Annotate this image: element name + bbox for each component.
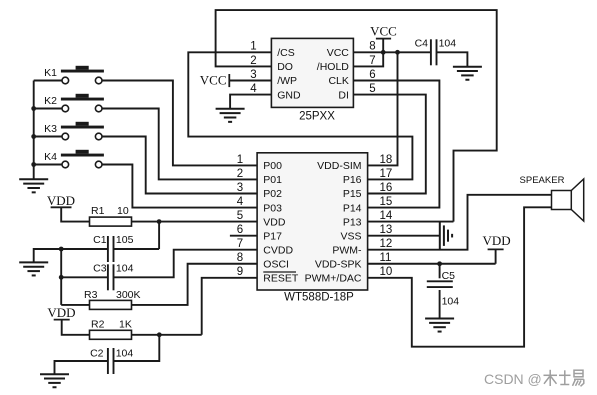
junction dot C1/gnd [59, 247, 64, 252]
svg-text:VSS: VSS [340, 230, 361, 242]
wire U1 pin7 /HOLD riser [353, 52, 383, 66]
svg-text:VDD-SPK: VDD-SPK [315, 258, 362, 270]
svg-text:P14: P14 [343, 202, 362, 214]
wire K2 left lead [34, 108, 62, 110]
svg-text:4: 4 [237, 196, 244, 208]
ground (U1 GND) [216, 109, 245, 122]
wire C1 right lead [114, 248, 159, 250]
svg-text:104: 104 [442, 296, 460, 308]
svg-text:3: 3 [237, 182, 243, 194]
wire net PWM-: U2 pin12 to speaker + [368, 195, 552, 250]
capacitor C3 [93, 262, 133, 290]
svg-text:14: 14 [380, 210, 393, 222]
svg-text:VCC: VCC [200, 72, 227, 87]
svg-text:C2: C2 [90, 348, 104, 360]
svg-text:OSCI: OSCI [263, 258, 289, 270]
wire junction to C1 [158, 222, 160, 249]
ground (VSS, rotated) [440, 222, 452, 250]
svg-text:9: 9 [237, 266, 243, 278]
svg-text:CSDN @: CSDN @ [484, 371, 542, 387]
svg-text:P15: P15 [343, 188, 362, 200]
power VDD (R1) [47, 193, 90, 221]
wire key common rail [33, 81, 35, 180]
wire K1 left lead [34, 80, 62, 82]
svg-text:105: 105 [116, 234, 134, 246]
wire K2 to U2 pin2 P01 [102, 109, 257, 180]
svg-text:10: 10 [380, 266, 393, 278]
power VDD (VDD-SPK) [483, 233, 511, 264]
U2 pin numbers [237, 154, 393, 278]
junction dot VDD-SIM riser [395, 50, 400, 55]
resistor R2 [90, 319, 132, 340]
svg-text:RESET: RESET [263, 273, 299, 285]
watermark CSDN @mushiyi [484, 370, 584, 387]
U1 pin numbers [250, 41, 375, 95]
svg-text:10: 10 [117, 205, 129, 217]
svg-text:5: 5 [369, 83, 375, 95]
svg-text:25PXX: 25PXX [299, 111, 335, 123]
U2 pin names [263, 160, 362, 284]
wire U1 pin8 VCC to C4 [353, 51, 431, 53]
wire C1 to ground [34, 249, 62, 262]
capacitor C2 [90, 348, 133, 375]
svg-text:P00: P00 [263, 160, 282, 172]
svg-text:15: 15 [380, 196, 393, 208]
svg-text:/WP: /WP [277, 75, 297, 87]
svg-text:16: 16 [380, 182, 393, 194]
svg-text:104: 104 [116, 262, 134, 274]
junction dot VCC stem [381, 50, 386, 55]
capacitor C5 [427, 270, 459, 308]
svg-text:3: 3 [250, 69, 256, 81]
wire K4 left lead [34, 164, 62, 166]
svg-text:K1: K1 [44, 67, 57, 79]
svg-text:VDD: VDD [47, 193, 75, 208]
wire C5 to ground [439, 290, 441, 319]
capacitor C1 [93, 234, 133, 262]
svg-text:DO: DO [277, 61, 293, 73]
svg-text:C4: C4 [415, 37, 429, 49]
svg-text:104: 104 [439, 37, 457, 49]
wire net DI: U1 pin5 to U2 pin16 P15 [353, 95, 425, 194]
svg-text:300K: 300K [116, 289, 141, 301]
svg-text:WT588D-18P: WT588D-18P [284, 291, 354, 303]
junction dot key rail K3 [31, 134, 36, 139]
ground (C5) [425, 319, 454, 332]
wire net PWM+/DAC: U2 pin10 to speaker - [368, 207, 552, 346]
power VCC (U1 pin3 /WP) [200, 72, 230, 87]
svg-text:1K: 1K [119, 319, 132, 331]
svg-text:/CS: /CS [277, 47, 295, 59]
U2 part name WT588D-18P [284, 291, 354, 303]
wire C1 left lead [61, 248, 108, 250]
svg-text:P17: P17 [263, 230, 282, 242]
svg-text:13: 13 [380, 224, 393, 236]
svg-text:PWM-: PWM- [332, 244, 362, 256]
svg-text:104: 104 [116, 348, 134, 360]
svg-text:2: 2 [237, 168, 243, 180]
power VCC (top, U1 pin8) [370, 24, 397, 53]
wire K1 to U2 pin1 P00 [102, 81, 257, 166]
wire K4 to U2 pin4 P03 [102, 165, 257, 208]
svg-text:GND: GND [277, 89, 301, 101]
wire C3 to U2 pin7 CVDD [114, 250, 257, 278]
junction dot key rail K4 [31, 162, 36, 167]
capacitor C4 [415, 37, 457, 65]
svg-text:6: 6 [369, 69, 375, 81]
svg-text:2: 2 [250, 55, 256, 67]
wire U2 pin11 VDD-SPK row [368, 263, 496, 265]
svg-text:C5: C5 [442, 270, 456, 282]
wire K3 to U2 pin3 P02 [102, 137, 257, 194]
svg-text:/HOLD: /HOLD [317, 61, 350, 73]
wire U2 pin6 P17 stub (NC) [230, 235, 257, 237]
svg-text:1: 1 [250, 41, 256, 53]
wire U2 pin13 VSS to ground [368, 235, 440, 237]
switch K1 [44, 66, 104, 84]
svg-text:P01: P01 [263, 174, 282, 186]
wire U2 pin14 P13 stub [368, 221, 454, 223]
svg-text:R2: R2 [91, 319, 105, 331]
resistor R1 [90, 205, 132, 226]
junction dot R1/C1 [157, 219, 162, 224]
wire C2 left lead to ground [55, 361, 108, 374]
U1 pin names [277, 47, 349, 101]
svg-text:PWM+/DAC: PWM+/DAC [305, 273, 362, 285]
wire R3 to U2 pin8 OSCI [132, 264, 258, 305]
svg-text:P03: P03 [263, 202, 282, 214]
svg-text:P02: P02 [263, 188, 282, 200]
svg-text:P16: P16 [343, 174, 362, 186]
svg-text:11: 11 [380, 252, 392, 264]
switch K3 [44, 122, 104, 140]
speaker LS1 [520, 175, 584, 221]
wire net DO: U1 pin2 DO to U2 pin14 P13 (top loop) [216, 10, 497, 222]
svg-text:R3: R3 [84, 289, 98, 301]
svg-text:VDD: VDD [47, 305, 75, 320]
svg-text:7: 7 [237, 238, 243, 250]
svg-text:DI: DI [338, 89, 349, 101]
switch K4 [44, 150, 104, 168]
IC U1 25PXX body [271, 38, 353, 107]
ground (C2) [40, 374, 69, 387]
svg-text:K3: K3 [44, 123, 57, 135]
svg-text:VDD-SIM: VDD-SIM [317, 160, 361, 172]
wire net VCC: U2 pin18 VDD-SIM riser to VCC junction [368, 52, 398, 165]
wire U1 pin4 GND to ground [230, 95, 271, 109]
svg-text:SPEAKER: SPEAKER [520, 175, 565, 186]
IC U2 WT588D-18P body [257, 153, 368, 290]
svg-text:5: 5 [237, 210, 243, 222]
svg-text:12: 12 [380, 238, 393, 250]
wire R3 left lead [61, 304, 89, 306]
svg-text:CVDD: CVDD [263, 244, 293, 256]
svg-text:K4: K4 [44, 151, 57, 163]
ground (keys rail) [19, 179, 48, 192]
junction dot VDD-SPK/C5 [437, 261, 442, 266]
power VDD (R2) [47, 305, 89, 335]
svg-text:8: 8 [369, 41, 375, 53]
wire C3 left lead [61, 276, 108, 278]
wire net CLK: U1 pin6 to U2 pin15 P14 [353, 81, 439, 208]
svg-text:4: 4 [250, 83, 257, 95]
svg-text:C1: C1 [93, 234, 107, 246]
junction dot C3 [59, 275, 64, 280]
svg-text:VDD: VDD [263, 216, 286, 228]
svg-text:K2: K2 [44, 95, 57, 107]
svg-text:1: 1 [237, 154, 243, 166]
wire K3 left lead [34, 136, 62, 138]
svg-text:6: 6 [237, 224, 243, 236]
svg-text:17: 17 [380, 168, 393, 180]
wire riser to U2 pin9 RESET [202, 278, 257, 335]
svg-text:C3: C3 [93, 262, 107, 274]
junction dot key rail K2 [31, 106, 36, 111]
junction dot R2/C2 [157, 332, 162, 337]
wire R2 to riser [132, 334, 202, 336]
wire U1 pin3 /WP stub [229, 80, 271, 82]
svg-text:8: 8 [237, 252, 243, 264]
wire net /CS: U1 pin1 to U2 pin17 P16 [188, 52, 412, 179]
svg-text:18: 18 [380, 154, 393, 166]
U1 part name 25PXX [299, 111, 335, 123]
switch K2 [44, 94, 104, 112]
svg-text:R1: R1 [91, 205, 105, 217]
wire C4 to ground [437, 52, 468, 66]
svg-text:P13: P13 [343, 216, 362, 228]
svg-text:VCC: VCC [370, 24, 397, 39]
svg-text:7: 7 [369, 55, 375, 67]
wire C2 right lead [114, 335, 159, 361]
resistor R3 [84, 289, 141, 309]
ground (C1) [19, 262, 48, 275]
wire R1 to U2 pin5 VDD [132, 221, 258, 223]
ground (C4) [453, 67, 482, 80]
svg-text:VCC: VCC [327, 47, 350, 59]
svg-text:VDD: VDD [483, 233, 511, 248]
svg-text:CLK: CLK [328, 75, 348, 87]
wire left rail C1-C3-R3 [60, 249, 62, 305]
wire C5 top lead [439, 264, 441, 279]
